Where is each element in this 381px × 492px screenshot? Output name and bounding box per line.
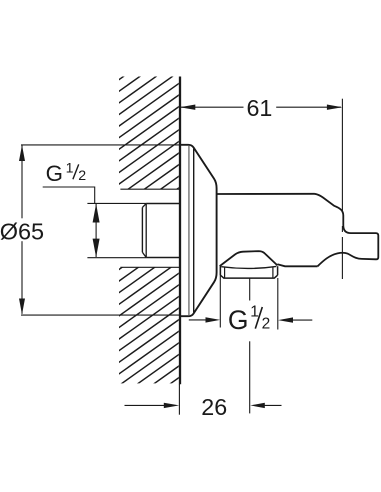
O65 bottom extension line	[21, 314, 180, 316]
arm bottom edge	[277, 264, 317, 266]
escutcheon flange outline	[180, 145, 217, 316]
G1/2 top leader	[43, 187, 95, 203]
dimension O65	[21, 146, 23, 314]
wall face extension line (26 dim)	[178, 384, 180, 415]
svg-text:26: 26	[201, 394, 227, 420]
svg-text:61: 61	[246, 95, 272, 121]
svg-text:G: G	[228, 305, 249, 335]
nozzle dome	[220, 251, 278, 266]
G1/2 vertical dimension	[87, 202, 146, 204]
61 right extension / center line	[341, 99, 343, 213]
G1/2 bottom dimension	[219, 266, 221, 327]
nozzle leader line	[249, 278, 251, 301]
escutcheon front face line	[193, 149, 195, 313]
svg-text:G: G	[46, 161, 63, 186]
wall face line	[179, 77, 181, 385]
escutcheon rim gray line	[188, 146, 190, 315]
wall lower hatched section	[114, 14, 184, 435]
holder bracket outline	[315, 194, 379, 266]
svg-text:2: 2	[78, 168, 86, 184]
nozzle thread band	[220, 266, 277, 278]
O65 top extension line	[21, 144, 180, 146]
svg-text:2: 2	[262, 316, 271, 333]
svg-text:1: 1	[66, 160, 74, 176]
wall upper hatched section	[114, 22, 184, 443]
svg-text:1: 1	[250, 304, 259, 321]
dimension 61	[181, 106, 341, 108]
arm top edge	[217, 193, 315, 195]
dimension 26	[125, 404, 165, 406]
threaded nipple G1/2	[142, 204, 179, 258]
svg-text:Ø65: Ø65	[0, 219, 44, 245]
wall hole bottom edge	[120, 266, 179, 268]
wall hole top edge	[120, 188, 179, 190]
